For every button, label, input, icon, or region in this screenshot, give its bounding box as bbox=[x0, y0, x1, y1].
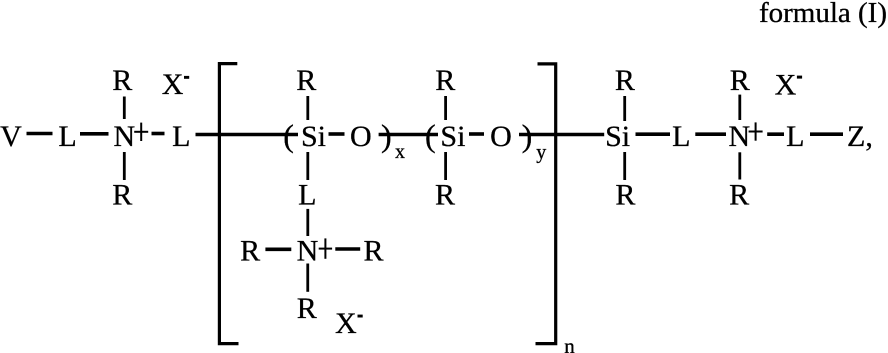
svg-text:x: x bbox=[395, 141, 405, 163]
svg-text:R: R bbox=[615, 179, 635, 212]
svg-text:R: R bbox=[364, 235, 384, 268]
svg-text:L: L bbox=[172, 120, 190, 153]
svg-text:R: R bbox=[112, 179, 132, 212]
svg-text:N: N bbox=[114, 120, 136, 153]
svg-text:R: R bbox=[296, 64, 316, 97]
svg-text:O: O bbox=[350, 120, 372, 153]
svg-text:R: R bbox=[615, 64, 635, 97]
svg-text:n: n bbox=[564, 334, 575, 353]
svg-text:R: R bbox=[240, 235, 260, 268]
svg-text:N: N bbox=[297, 235, 319, 268]
svg-text:Si: Si bbox=[440, 120, 465, 153]
svg-text:V: V bbox=[0, 120, 22, 153]
svg-text:Si: Si bbox=[301, 120, 326, 153]
svg-text:L: L bbox=[786, 120, 804, 153]
svg-text:R: R bbox=[730, 64, 750, 97]
svg-text:Si: Si bbox=[605, 120, 630, 153]
svg-text:formula (I): formula (I) bbox=[759, 0, 887, 29]
svg-text:R: R bbox=[112, 64, 132, 97]
svg-text:N: N bbox=[728, 120, 750, 153]
svg-text:R: R bbox=[435, 64, 455, 97]
svg-text:X: X bbox=[335, 307, 357, 340]
svg-text:X: X bbox=[162, 68, 184, 101]
svg-text:R: R bbox=[729, 179, 749, 212]
svg-text:R: R bbox=[435, 179, 455, 212]
svg-text:O: O bbox=[490, 120, 512, 153]
svg-text:R: R bbox=[297, 292, 317, 325]
svg-text:X: X bbox=[775, 69, 797, 102]
svg-text:L: L bbox=[58, 120, 76, 153]
svg-text:L: L bbox=[672, 120, 690, 153]
svg-text:L: L bbox=[298, 179, 316, 212]
svg-text:Z,: Z, bbox=[847, 120, 873, 153]
svg-text:y: y bbox=[536, 142, 546, 164]
